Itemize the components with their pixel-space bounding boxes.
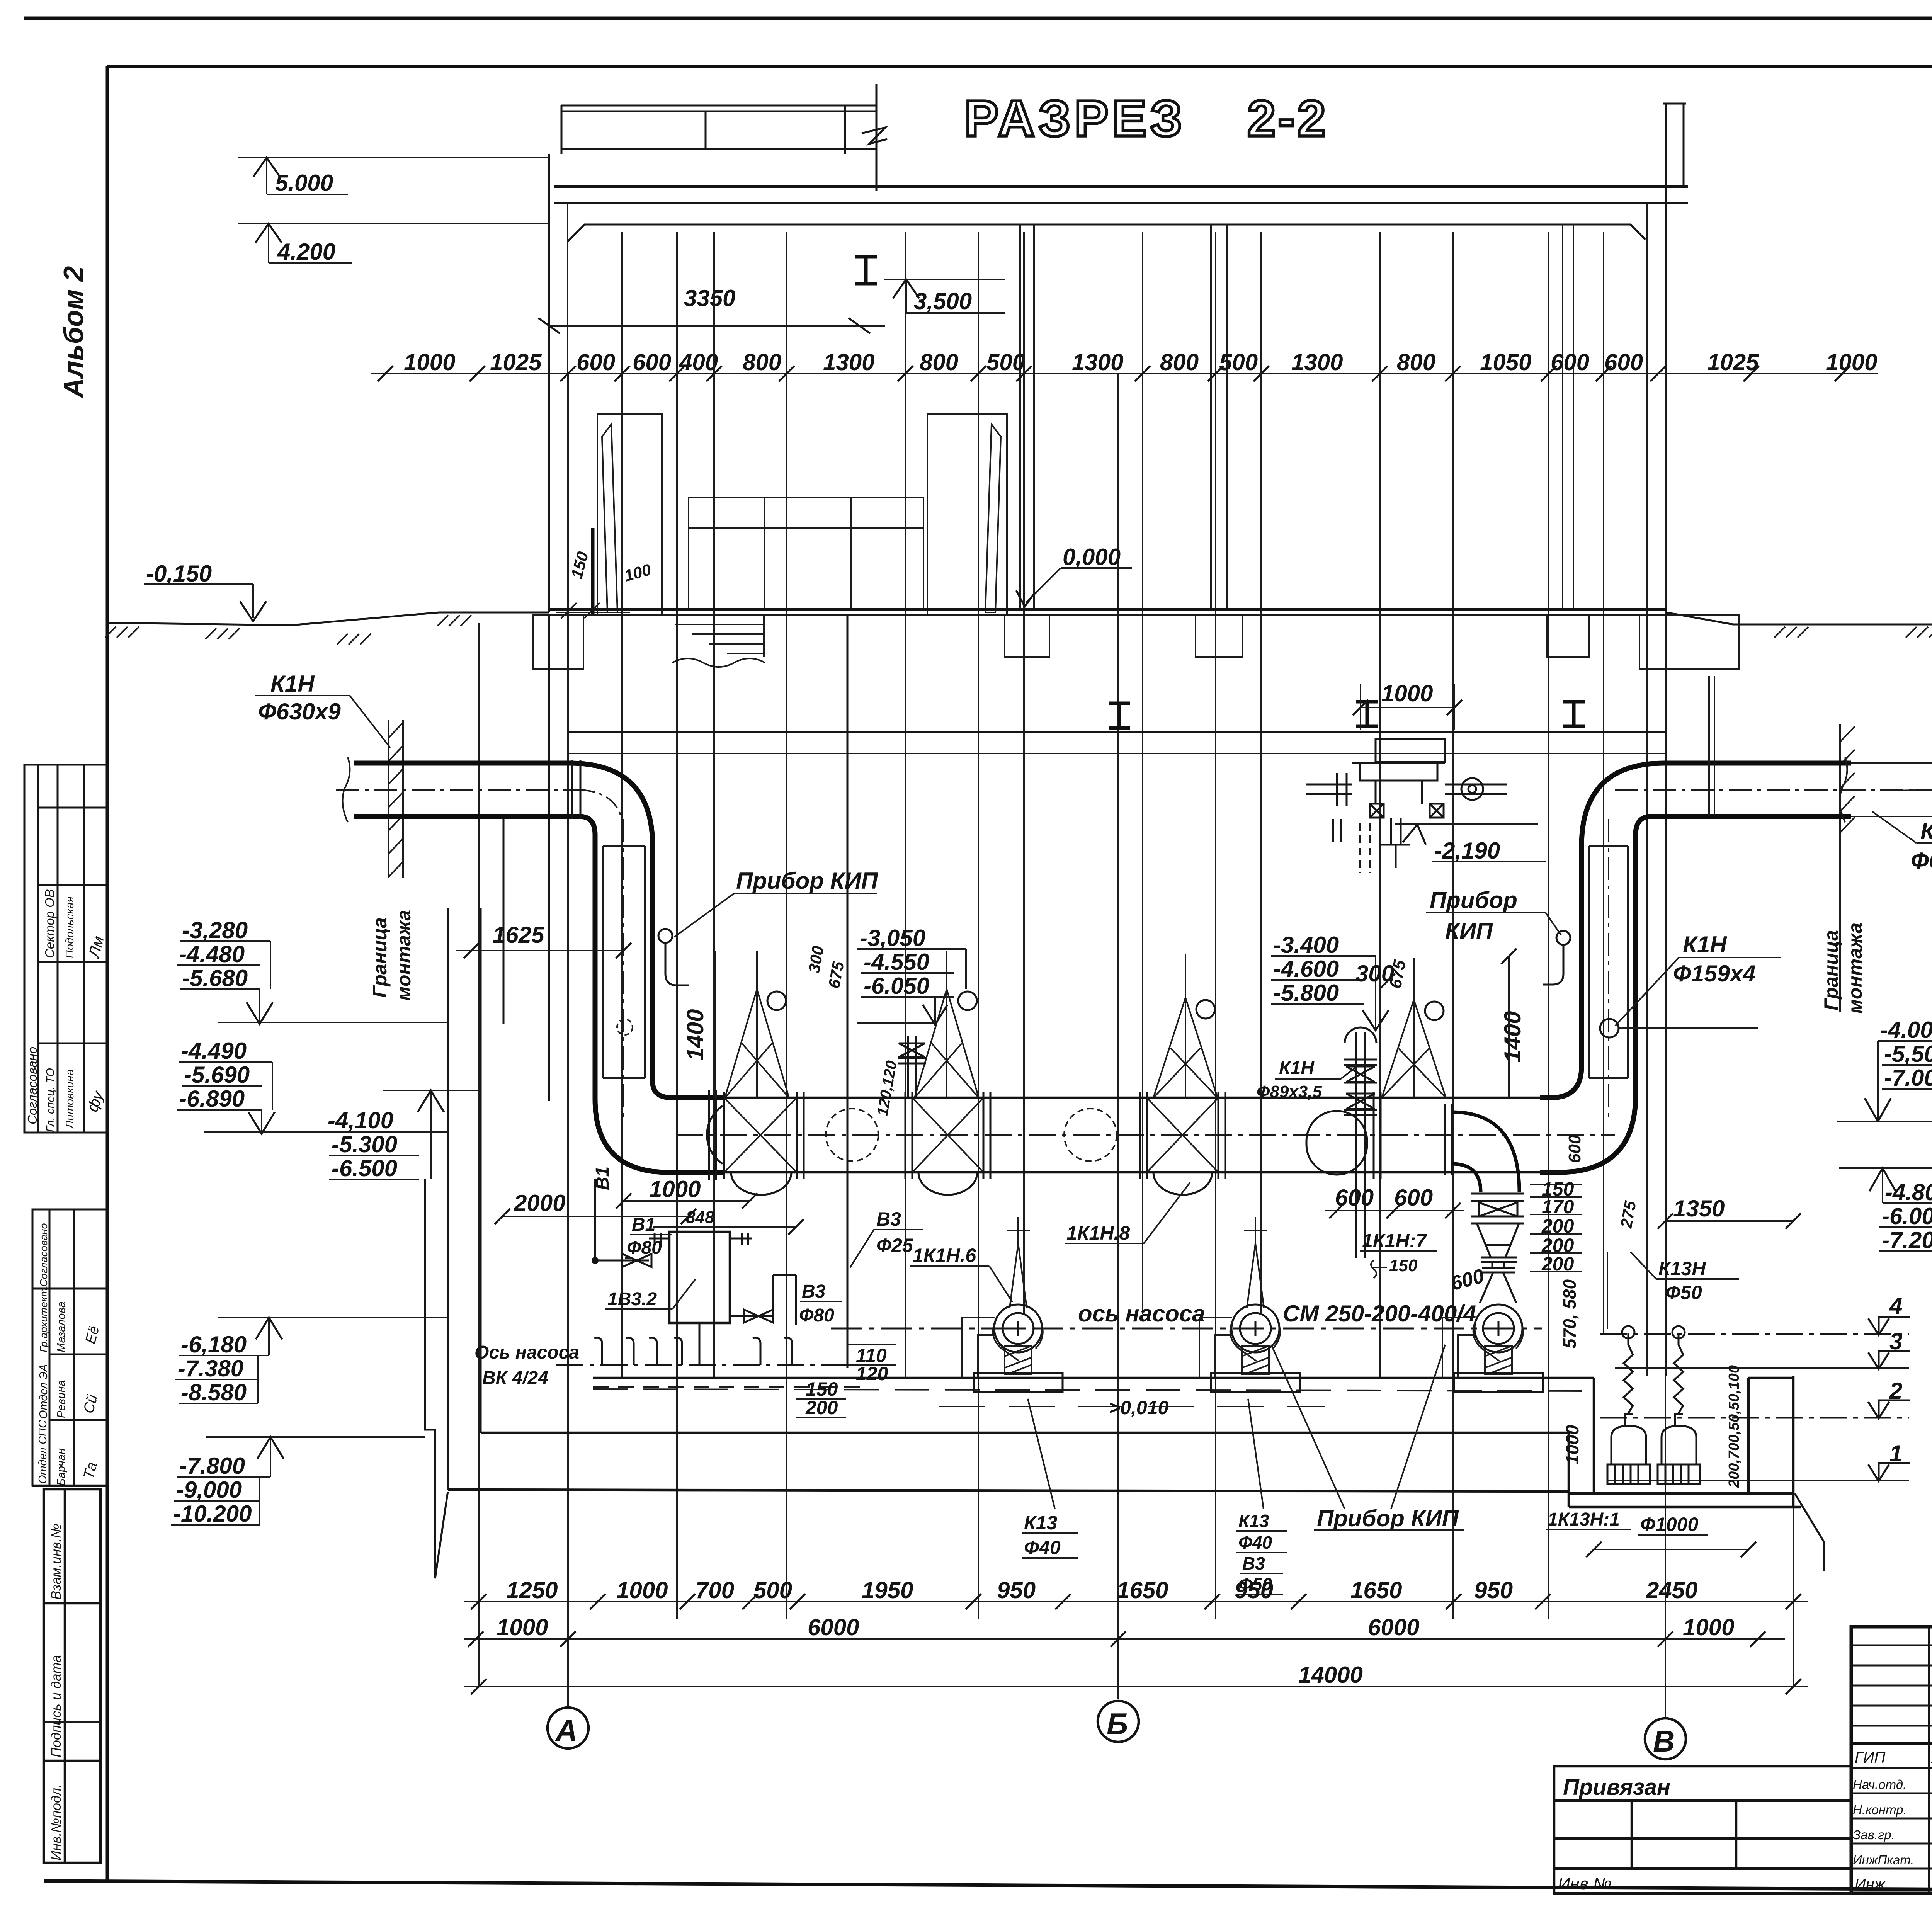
svg-text:1300: 1300 xyxy=(1291,349,1343,375)
svg-text:Согласовано: Согласовано xyxy=(38,1223,49,1287)
svg-text:А: А xyxy=(555,1713,577,1747)
svg-text:1625: 1625 xyxy=(493,922,545,948)
svg-text:Б: Б xyxy=(1107,1707,1128,1741)
MACHINE HALL FLOOR xyxy=(593,1377,1594,1379)
svg-text:-3,050: -3,050 xyxy=(860,925,925,951)
ground right xyxy=(1666,612,1932,624)
svg-text:Взам.инв.№: Взам.инв.№ xyxy=(49,1524,64,1600)
svg-text:Привязан: Привязан xyxy=(1563,1775,1670,1800)
svg-text:950: 950 xyxy=(1474,1577,1513,1603)
svg-text:К1Н: К1Н xyxy=(270,671,315,697)
svg-text:В: В xyxy=(1653,1724,1675,1758)
svg-text:-10.200: -10.200 xyxy=(173,1501,252,1527)
svg-text:Прибор КИП: Прибор КИП xyxy=(1317,1505,1459,1531)
svg-text:2450: 2450 xyxy=(1646,1577,1697,1603)
svg-text:Граница: Граница xyxy=(1820,930,1842,1010)
svg-text:СМ 250-200-400/4: СМ 250-200-400/4 xyxy=(1283,1301,1476,1327)
svg-text:-7.800: -7.800 xyxy=(179,1453,245,1479)
upper approval table xyxy=(24,765,107,1133)
svg-text:Отдел ЭА: Отдел ЭА xyxy=(37,1364,50,1419)
svg-text:600: 600 xyxy=(633,349,671,375)
svg-text:К13Н: К13Н xyxy=(1658,1258,1706,1279)
-2.190 xyxy=(1395,823,1538,825)
hoist assembly center xyxy=(1306,739,1507,868)
doors xyxy=(597,414,1007,615)
bottom slab xyxy=(481,1432,1569,1434)
svg-text:3350: 3350 xyxy=(684,285,735,311)
svg-text:РАЗРЕЗ: РАЗРЕЗ xyxy=(964,90,1186,147)
svg-text:-4.600: -4.600 xyxy=(1273,956,1339,982)
zigzag hoses xyxy=(1624,1333,1633,1414)
discharge cones above pumps xyxy=(1007,1217,1267,1308)
dashed circles in channel xyxy=(826,1109,878,1161)
svg-text:Зав.гр.: Зав.гр. xyxy=(1853,1828,1895,1842)
svg-text:-5.300: -5.300 xyxy=(332,1131,397,1157)
svg-text:2-2: 2-2 xyxy=(1247,90,1328,147)
svg-text:1000: 1000 xyxy=(1683,1614,1734,1640)
svg-text:600: 600 xyxy=(1565,1134,1584,1163)
svg-text:>0,010: >0,010 xyxy=(1109,1397,1169,1418)
svg-text:-2,190: -2,190 xyxy=(1434,838,1500,864)
svg-text:150: 150 xyxy=(1389,1256,1418,1275)
thin pipe continuation right after break xyxy=(1851,763,1932,816)
svg-text:-5,500: -5,500 xyxy=(1884,1041,1932,1067)
svg-text:1000: 1000 xyxy=(1826,349,1877,375)
crane rail I symbols xyxy=(1109,702,1585,728)
svg-text:800: 800 xyxy=(1397,349,1435,375)
svg-text:Ф1000: Ф1000 xyxy=(1640,1514,1698,1535)
V3 vertical from above xyxy=(847,615,849,1368)
elevation 3.500 xyxy=(884,279,1005,313)
svg-text:Барчан: Барчан xyxy=(55,1448,68,1486)
small valve column at left tripods xyxy=(898,1036,926,1098)
svg-text:Ф40: Ф40 xyxy=(1238,1532,1272,1553)
interior columns xyxy=(1020,224,1573,609)
svg-text:1650: 1650 xyxy=(1117,1577,1168,1603)
svg-text:монтажа: монтажа xyxy=(1844,923,1866,1014)
svg-text:1300: 1300 xyxy=(1072,349,1123,375)
flange at left pipe top xyxy=(571,760,573,819)
svg-text:Ф159х4: Ф159х4 xyxy=(1673,961,1756,986)
svg-text:ИнжПкат.: ИнжПкат. xyxy=(1853,1853,1914,1867)
svg-text:6000: 6000 xyxy=(1368,1614,1419,1640)
flange stack dims 150/170/200/200/200 xyxy=(1530,1185,1582,1272)
left wall bottom profile xyxy=(425,1179,448,1578)
svg-text:К1Н: К1Н xyxy=(1683,932,1727,957)
svg-text:1025: 1025 xyxy=(1707,349,1759,375)
svg-text:1350: 1350 xyxy=(1673,1196,1725,1221)
svg-text:1025: 1025 xyxy=(490,349,542,375)
V1/V3 piping and tank box xyxy=(669,1232,730,1323)
svg-text:-7.200: -7.200 xyxy=(1882,1227,1932,1253)
left wall xyxy=(548,154,550,612)
svg-text:500: 500 xyxy=(1219,349,1258,375)
svg-text:Ф40: Ф40 xyxy=(1024,1537,1061,1558)
svg-text:1050: 1050 xyxy=(1480,349,1531,375)
svg-text:Нач.отд.: Нач.отд. xyxy=(1853,1777,1906,1792)
svg-text:3,500: 3,500 xyxy=(914,288,972,314)
svg-text:1К13Н:1: 1К13Н:1 xyxy=(1548,1509,1620,1530)
svg-text:Согласовано: Согласовано xyxy=(25,1047,39,1124)
svg-text:Ревина: Ревина xyxy=(55,1380,68,1418)
svg-text:600: 600 xyxy=(577,349,615,375)
TITLE BLOCK xyxy=(1851,1627,1932,1893)
TOP DIMENSION CHAIN xyxy=(371,373,1878,374)
svg-text:В3: В3 xyxy=(1242,1553,1265,1573)
svg-text:1250: 1250 xyxy=(506,1577,558,1603)
svg-text:В3: В3 xyxy=(876,1208,901,1230)
svg-text:-4.480: -4.480 xyxy=(179,941,245,967)
svg-text:1650: 1650 xyxy=(1350,1577,1402,1603)
svg-text:ВК 4/24: ВК 4/24 xyxy=(482,1368,548,1388)
svg-text:570, 580: 570, 580 xyxy=(1560,1279,1580,1349)
SUCTION CHANNEL xyxy=(723,1097,1565,1099)
KIP instrument left xyxy=(658,929,672,943)
svg-text:170: 170 xyxy=(1542,1196,1574,1218)
svg-text:-4,100: -4,100 xyxy=(328,1107,393,1133)
svg-text:-6.890: -6.890 xyxy=(179,1086,245,1112)
svg-text:Ф80: Ф80 xyxy=(799,1305,834,1326)
svg-text:-7.000: -7.000 xyxy=(1884,1065,1932,1091)
svg-text:2: 2 xyxy=(1889,1378,1902,1404)
svg-text:-4.000: -4.000 xyxy=(1880,1017,1932,1043)
svg-text:-8.580: -8.580 xyxy=(181,1379,247,1405)
svg-text:Инв.№подл.: Инв.№подл. xyxy=(49,1784,64,1861)
svg-text:500: 500 xyxy=(753,1577,792,1603)
KIP instrument right xyxy=(1556,931,1570,945)
svg-text:1000: 1000 xyxy=(1562,1425,1582,1464)
control cabinet xyxy=(689,497,923,609)
inner pipe lines xyxy=(603,846,645,1078)
svg-text:В3: В3 xyxy=(802,1281,826,1302)
bold post at cabinet left xyxy=(591,528,595,615)
ground left xyxy=(109,612,549,625)
svg-text:К1Н: К1Н xyxy=(1279,1058,1315,1078)
svg-text:0,000: 0,000 xyxy=(1063,544,1121,570)
svg-text:600: 600 xyxy=(1604,349,1643,375)
svg-text:-6.500: -6.500 xyxy=(332,1155,397,1181)
svg-text:1000: 1000 xyxy=(616,1577,668,1603)
svg-text:600: 600 xyxy=(1551,349,1589,375)
svg-text:В1: В1 xyxy=(592,1167,613,1190)
svg-text:6000: 6000 xyxy=(808,1614,859,1640)
svg-text:800: 800 xyxy=(743,349,781,375)
svg-text:монтажа: монтажа xyxy=(393,910,415,1001)
elevation 5.000 xyxy=(238,158,549,194)
row2 xyxy=(464,1638,1785,1640)
lower margin strip xyxy=(44,1489,100,1863)
UNDERGROUND TANK WALLS xyxy=(448,615,549,1490)
svg-text:-9,000: -9,000 xyxy=(176,1477,242,1503)
RIGHT OUTLET PIPE K1N 630x9 xyxy=(1540,763,1851,1098)
svg-text:800: 800 xyxy=(920,349,958,375)
svg-text:3: 3 xyxy=(1889,1328,1902,1354)
svg-text:-0,150: -0,150 xyxy=(146,561,212,587)
svg-text:200: 200 xyxy=(1541,1215,1574,1237)
level lines 1-4 xyxy=(1600,1333,1909,1335)
centerlines xyxy=(336,789,580,791)
svg-text:Н.контр.: Н.контр. xyxy=(1853,1803,1907,1817)
svg-text:950: 950 xyxy=(1235,1577,1273,1603)
stairs to basement xyxy=(672,615,765,667)
svg-text:Ф89х3,5: Ф89х3,5 xyxy=(1257,1082,1322,1101)
GNOM pumps in pit xyxy=(1607,1414,1700,1484)
svg-text:Ф80: Ф80 xyxy=(627,1238,662,1258)
svg-text:-6,180: -6,180 xyxy=(181,1332,247,1357)
svg-text:4.200: 4.200 xyxy=(277,239,335,265)
svg-text:Ось насоса: Ось насоса xyxy=(474,1342,579,1363)
svg-text:ГИП: ГИП xyxy=(1855,1749,1886,1766)
svg-text:Гл. спец. ТО: Гл. спец. ТО xyxy=(44,1068,57,1132)
montage boundary hatched strip left xyxy=(388,720,403,878)
pit xyxy=(1569,1376,1801,1507)
svg-text:200: 200 xyxy=(1541,1253,1574,1275)
svg-text:-6.050: -6.050 xyxy=(864,973,929,999)
svg-text:Граница: Граница xyxy=(369,917,391,998)
svg-text:Инв.№: Инв.№ xyxy=(1558,1874,1612,1893)
svg-text:Ф25: Ф25 xyxy=(876,1235,913,1256)
svg-text:1400: 1400 xyxy=(1500,1011,1526,1063)
svg-text:1300: 1300 xyxy=(823,349,874,375)
roof slab xyxy=(554,185,1688,188)
svg-text:1В3.2: 1В3.2 xyxy=(607,1289,657,1310)
svg-text:1000: 1000 xyxy=(1381,680,1433,706)
svg-text:-6.000: -6.000 xyxy=(1882,1203,1932,1229)
svg-text:-3.400: -3.400 xyxy=(1273,932,1339,958)
inner frame xyxy=(107,65,1932,68)
svg-text:Прибор КИП: Прибор КИП xyxy=(736,868,879,894)
row1 xyxy=(464,1601,1808,1602)
svg-text:Альбом 2: Альбом 2 xyxy=(58,266,89,399)
capsule branch xyxy=(1306,1111,1367,1175)
svg-text:Подольская: Подольская xyxy=(64,896,76,958)
X cross segments xyxy=(724,1098,1218,1172)
channel flange pairs xyxy=(709,1090,1452,1180)
middle approval table xyxy=(32,1209,107,1486)
wall foundations xyxy=(533,615,1739,669)
svg-text:950: 950 xyxy=(997,1577,1036,1603)
svg-text:1000: 1000 xyxy=(497,1614,548,1640)
svg-text:1400: 1400 xyxy=(682,1009,708,1061)
svg-text:500: 500 xyxy=(986,349,1025,375)
svg-text:2000: 2000 xyxy=(514,1190,565,1216)
long thin verticals (grid/extension lines) xyxy=(479,232,1793,1687)
svg-text:-5.680: -5.680 xyxy=(182,965,248,991)
svg-text:1: 1 xyxy=(1889,1440,1902,1466)
svg-text:К1Н: К1Н xyxy=(1920,818,1932,844)
svg-text:К13: К13 xyxy=(1024,1512,1058,1534)
PUMPS x3 xyxy=(994,1304,1522,1352)
base plates xyxy=(974,1373,1063,1392)
svg-text:Ф630х9: Ф630х9 xyxy=(1911,848,1932,874)
svg-text:К13: К13 xyxy=(1238,1511,1269,1531)
rooftop penthouse xyxy=(561,84,887,191)
montage boundary right xyxy=(1840,724,1855,1012)
svg-text:700: 700 xyxy=(696,1577,734,1603)
svg-text:120: 120 xyxy=(856,1363,888,1384)
K1N 159x4 label + connection xyxy=(1600,1019,1619,1037)
crane girder level xyxy=(568,731,1665,733)
level flags xyxy=(1868,1317,1910,1481)
vertical K1N89 pipe with valves xyxy=(1344,1027,1377,1258)
monorail I-beam symbol xyxy=(855,257,877,284)
svg-text:4: 4 xyxy=(1889,1293,1902,1319)
binding box (Privyazan) xyxy=(1554,1766,1851,1893)
svg-text:Гр.архитект.: Гр.архитект. xyxy=(38,1285,49,1352)
svg-text:200,700,50,50,100: 200,700,50,50,100 xyxy=(1726,1365,1742,1488)
svg-text:Ф630х9: Ф630х9 xyxy=(258,699,341,724)
PUMP AXIS dash-dot xyxy=(831,1328,1542,1330)
pump volute outline + suction elbow xyxy=(962,1318,1523,1378)
svg-text:800: 800 xyxy=(1160,349,1199,375)
svg-text:Мазалова: Мазалова xyxy=(55,1301,68,1352)
svg-text:5.000: 5.000 xyxy=(275,170,333,196)
outer top edge xyxy=(24,17,1932,20)
BIG DISCHARGE ELBOW to pump3 xyxy=(1452,1112,1519,1192)
TRIPODS (rack supports) xyxy=(725,989,1446,1098)
svg-text:1К1Н.8: 1К1Н.8 xyxy=(1066,1222,1130,1244)
svg-text:14000: 14000 xyxy=(1298,1662,1363,1688)
LEFT INLET PIPE K1N 630x9 xyxy=(354,763,723,1098)
svg-text:1К1Н:7: 1К1Н:7 xyxy=(1362,1230,1427,1252)
svg-text:600: 600 xyxy=(1394,1185,1433,1211)
right wall inner xyxy=(1646,203,1648,1376)
elevation 4.200 xyxy=(238,224,549,263)
FLOOR AND GROUND xyxy=(549,608,1666,611)
pedestals hatched xyxy=(1005,1346,1512,1374)
svg-text:1950: 1950 xyxy=(862,1577,913,1603)
svg-text:200: 200 xyxy=(805,1397,838,1418)
suction bells under channel xyxy=(731,1172,791,1195)
right parapet xyxy=(1663,104,1686,1376)
svg-text:1К1Н.6: 1К1Н.6 xyxy=(913,1245,976,1266)
svg-text:Подпись и дата: Подпись и дата xyxy=(49,1655,64,1757)
svg-text:-5.690: -5.690 xyxy=(184,1062,250,1088)
svg-text:В1: В1 xyxy=(632,1214,655,1235)
axis lines xyxy=(568,374,1665,1718)
svg-text:Прибор: Прибор xyxy=(1430,887,1517,913)
svg-text:КИП: КИП xyxy=(1445,918,1493,944)
svg-text:Сектор ОВ: Сектор ОВ xyxy=(43,889,57,958)
svg-text:-5.800: -5.800 xyxy=(1273,980,1339,1006)
svg-text:848: 848 xyxy=(686,1208,714,1227)
row3 xyxy=(464,1686,1808,1687)
svg-text:ось насоса: ось насоса xyxy=(1078,1301,1205,1327)
svg-text:400: 400 xyxy=(679,349,718,375)
svg-text:-4.490: -4.490 xyxy=(181,1038,247,1064)
svg-text:Инж.: Инж. xyxy=(1855,1876,1889,1893)
svg-text:1000: 1000 xyxy=(404,349,455,375)
svg-text:Отдел СПС: Отдел СПС xyxy=(37,1420,49,1484)
svg-text:1000: 1000 xyxy=(649,1176,701,1202)
svg-text:-3,280: -3,280 xyxy=(182,917,248,943)
svg-text:Ф50: Ф50 xyxy=(1665,1282,1702,1303)
axis circles xyxy=(548,1708,588,1748)
svg-text:-7.380: -7.380 xyxy=(178,1355,243,1381)
svg-text:Литовкина: Литовкина xyxy=(64,1069,76,1129)
anchor hooks xyxy=(594,1338,792,1365)
svg-text:-4.550: -4.550 xyxy=(864,949,929,975)
